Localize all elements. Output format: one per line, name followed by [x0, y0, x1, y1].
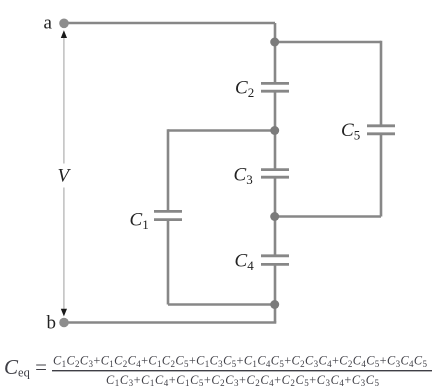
wire: C1 bottom back to J4: [168, 303, 276, 306]
wire: C5 bottom back to J3: [274, 215, 381, 218]
junction J4: [270, 300, 279, 309]
capacitor C2 plates: [261, 83, 289, 91]
svg-text:C3: C3: [234, 165, 253, 188]
svg-text:C1: C1: [130, 210, 149, 233]
junction J3: [270, 212, 279, 221]
wire: C3 down to J3: [274, 177, 277, 217]
wire: bottom rail from terminal b: [64, 321, 276, 324]
svg-text:C1C2C3+C1C2C4+C1C2C5+C1C3C5+C1: C1C2C3+C1C2C4+C1C2C5+C1C3C5+C1C4C5+C2C3C…: [53, 354, 428, 369]
svg-text:C1C3+C1C4+C1C5+C2C3+C2C4+C2C5+: C1C3+C1C4+C1C5+C2C3+C2C4+C2C5+C3C4+C3C5: [106, 373, 380, 388]
wire: corner down to junction J1: [274, 23, 277, 42]
wire: J2 down to C3: [274, 131, 277, 171]
capacitor C1 plates: [154, 211, 182, 219]
V arrow line upper segment: [63, 36, 65, 164]
wire: C5 upper lead: [380, 41, 383, 126]
svg-text:C2: C2: [235, 78, 254, 101]
wire: C5 lower lead: [380, 134, 383, 217]
svg-text:b: b: [47, 313, 57, 334]
V arrow line lower segment: [63, 188, 65, 311]
wire: J1 right to C5 branch: [274, 41, 381, 44]
svg-text:C5: C5: [341, 120, 360, 143]
wire: J2 left to C1 branch: [168, 129, 276, 132]
terminal b dot: [59, 318, 69, 328]
arrowhead down at b: [61, 309, 67, 317]
svg-text:C4: C4: [235, 251, 255, 274]
wire: C1 upper lead: [167, 129, 170, 211]
wire: C2 down to J2: [274, 91, 277, 131]
junction J1: [270, 38, 279, 47]
terminal a dot: [59, 19, 69, 29]
wire: J1 down to C2: [274, 42, 277, 84]
svg-text:a: a: [44, 13, 53, 34]
wire: top rail from terminal a to corner: [64, 22, 275, 25]
wire: C4 down to J4: [274, 264, 277, 304]
capacitor C4 plates: [261, 256, 289, 265]
capacitor C5 plates: [367, 126, 395, 134]
arrowhead up at a: [61, 30, 67, 38]
junction J2: [270, 126, 279, 135]
wire: C1 lower lead: [167, 220, 170, 305]
svg-text:Ceq =: Ceq =: [4, 355, 47, 380]
equation: fraction bar: [52, 370, 432, 371]
wire: J3 down to C4: [274, 217, 277, 257]
wire: J4 down to bottom rail: [274, 305, 277, 323]
svg-text:V: V: [58, 166, 72, 187]
capacitor C3 plates: [261, 170, 289, 178]
